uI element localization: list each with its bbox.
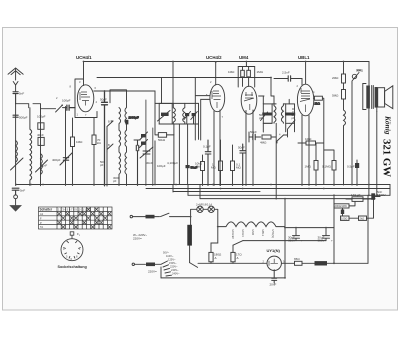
- switch contact B2: [107, 144, 113, 152]
- wire leads: [315, 143, 317, 186]
- resistor 1M vert right: [314, 161, 318, 171]
- wire tube2 grid lead: [215, 62, 217, 85]
- wire left branch: [16, 104, 41, 108]
- svg-text:110V~: 110V~: [166, 254, 174, 258]
- svg-text:125V~: 125V~: [168, 258, 176, 262]
- switch dot 2: [61, 104, 63, 106]
- wire res vert leads: [221, 140, 233, 186]
- speaker driver: [378, 88, 385, 107]
- socket key: [70, 232, 74, 235]
- IF1 primary coil: [173, 103, 175, 124]
- wire 1M leads: [298, 142, 324, 144]
- wire right col b: [367, 195, 369, 263]
- wire res 1M leads: [72, 118, 74, 186]
- resistor NTC blob: [315, 261, 328, 265]
- wire heater feed drop: [275, 123, 277, 198]
- svg-text:500pF: 500pF: [19, 116, 28, 120]
- bottom rail: [161, 277, 285, 279]
- capacitor 2,5nF: [284, 76, 303, 81]
- svg-text:50pF: 50pF: [100, 98, 107, 102]
- svg-text:65Ω: 65Ω: [294, 257, 300, 261]
- svg-text:2×NF0,8/0,1A: 2×NF0,8/0,1A: [196, 203, 212, 207]
- svg-text:1MΩ: 1MΩ: [76, 140, 83, 144]
- tube UBL1 electrodes: [300, 88, 310, 112]
- wire 2M leads: [343, 62, 345, 90]
- resistor 100ohm: [341, 216, 350, 220]
- output transformer secondary winding: [375, 87, 378, 108]
- svg-text:UCH4/2: UCH4/2: [206, 55, 222, 60]
- rail HT3: [200, 198, 375, 200]
- svg-text:220V~: 220V~: [170, 265, 178, 269]
- UY1 electrodes: [269, 259, 278, 266]
- resistor 2k: [359, 216, 367, 220]
- output transformer core: [372, 86, 374, 109]
- IF2 cap blob: [262, 113, 272, 116]
- wire speaker lead: [376, 108, 378, 112]
- wire UBL1 grid: [301, 79, 303, 86]
- resistor 1M UM4 b: [247, 70, 251, 77]
- main bus 1: [16, 184, 390, 186]
- wire dropper leads: [190, 225, 191, 263]
- svg-text:1MΩ: 1MΩ: [305, 165, 312, 169]
- IF transformer 1 box: [159, 103, 172, 124]
- svg-text:50pF: 50pF: [250, 130, 257, 134]
- switch tone: [352, 70, 361, 83]
- svg-text:TA: TA: [40, 225, 43, 229]
- antenna: [8, 68, 23, 85]
- svg-text:100pF: 100pF: [37, 115, 46, 119]
- IF1 secondary coil: [183, 103, 185, 124]
- capacitor 0,5uF blob: [356, 160, 358, 186]
- resistor 0,1M vert right: [332, 161, 336, 171]
- svg-text:30nF: 30nF: [146, 161, 153, 165]
- wire NTC right: [327, 262, 368, 264]
- gang arrow a: [140, 132, 148, 140]
- IF1 cap blob: [161, 113, 169, 116]
- svg-text:40pF: 40pF: [37, 133, 44, 137]
- switch heater: [233, 241, 243, 246]
- capacitor trimmer mid: [140, 147, 153, 158]
- svg-text:240V~: 240V~: [172, 272, 180, 276]
- resistor 50k: [158, 133, 166, 138]
- mains wire bottom: [135, 263, 146, 265]
- wire band1 top: [63, 107, 67, 109]
- wire selector drop: [160, 267, 162, 278]
- shield box UM4 resistors: [238, 67, 255, 88]
- capacitor 30uF b: [323, 228, 330, 241]
- voltage selector fan: [155, 261, 172, 276]
- capacitor 0,1uF det: [205, 140, 211, 186]
- resistor 65ohm: [295, 261, 303, 265]
- capacitor 50pF tube1: [102, 91, 108, 186]
- svg-text:4MΩ: 4MΩ: [260, 141, 267, 145]
- svg-text:20nF: 20nF: [270, 282, 277, 286]
- svg-text:UY1(N): UY1(N): [267, 248, 281, 253]
- tube UCH4/2 electrodes: [212, 91, 221, 108]
- ground symbol: [9, 205, 22, 212]
- svg-text:UCH4: UCH4: [241, 230, 245, 238]
- svg-text:UM4: UM4: [251, 230, 255, 236]
- IF1 trimmer blob b: [192, 113, 196, 116]
- title Koenig 321 GW rotated: [381, 115, 393, 177]
- capacitor blob small: [341, 210, 344, 215]
- svg-text:UM4: UM4: [239, 55, 249, 60]
- wire plate tube1: [94, 91, 155, 103]
- wire UY1 right: [282, 262, 295, 264]
- tube UBL1 envelope: [297, 84, 313, 116]
- wire transformer top lead: [368, 62, 370, 196]
- gang capacitor frame lines: [146, 100, 153, 186]
- tube UCH4/1 envelope: [77, 85, 93, 112]
- capacitor 140uF box: [352, 197, 363, 202]
- resistor 10k 2W: [201, 162, 205, 171]
- wire lamps: [191, 209, 218, 226]
- wire cap return: [243, 240, 326, 242]
- switch contact B1: [107, 121, 113, 129]
- resistor 5M: [342, 90, 346, 100]
- lamp circle 2: [208, 206, 214, 212]
- table X marks: [57, 208, 111, 229]
- wire 120 leads: [232, 245, 234, 263]
- svg-text:100Ω: 100Ω: [341, 217, 347, 221]
- wire rail left drops: [173, 185, 200, 199]
- heater chain coil: [218, 222, 285, 227]
- svg-text:UCH4/1: UCH4/1: [76, 55, 92, 60]
- tube UY1 circle: [267, 256, 281, 270]
- svg-text:2MΩ: 2MΩ: [332, 76, 339, 80]
- speaker cone: [385, 86, 393, 109]
- resistor 2k cathode: [314, 96, 322, 100]
- wire left column: [15, 104, 17, 186]
- wire top bus: [84, 61, 370, 63]
- wire AVC drop: [271, 78, 274, 104]
- ground connector circle: [14, 195, 18, 199]
- wire tone drop: [351, 83, 353, 185]
- svg-text:50V~: 50V~: [163, 251, 170, 255]
- capacitor 50nF IF blob: [186, 165, 190, 168]
- wire speaker col: [376, 112, 378, 196]
- wire bus drop right: [389, 185, 391, 196]
- dropper resistor bar: [187, 225, 192, 246]
- IF transformer 2b box: [286, 104, 295, 123]
- gang cap blob a: [141, 134, 146, 137]
- svg-text:50kΩ: 50kΩ: [158, 138, 166, 142]
- capacitor 30uF a: [293, 228, 300, 241]
- IF2 secondary coil: [281, 104, 283, 123]
- oscillator coil A upper: [119, 108, 121, 131]
- svg-text:220V=: 220V=: [133, 237, 142, 241]
- svg-text:5nF: 5nF: [19, 92, 24, 96]
- resistor 1M UM4 a: [241, 70, 245, 77]
- svg-text:321 GW: 321 GW: [381, 139, 393, 177]
- tube UM4 envelope: [241, 86, 257, 114]
- tube UCH4/2 envelope: [210, 84, 225, 111]
- coil L2: [30, 108, 32, 186]
- socket pins: [63, 241, 80, 258]
- wire 2,5nF left: [274, 78, 284, 80]
- wire UM4 bottom leads: [246, 110, 253, 186]
- wire tube2 left pin: [195, 78, 210, 141]
- svg-text:1MΩ: 1MΩ: [257, 70, 264, 74]
- svg-text:50nF: 50nF: [238, 146, 245, 150]
- tube UCH4/1 electrodes: [80, 92, 90, 106]
- IF2b wires: [283, 99, 294, 131]
- capacitor 5nF antenna: [13, 92, 18, 104]
- IF transformer 1 bottom wire: [159, 123, 198, 125]
- wire AVC bus: [97, 77, 271, 79]
- tube UM4 electrodes: [244, 92, 254, 110]
- tube2 bottom leads: [214, 110, 220, 186]
- trimmer cap box 2: [38, 137, 44, 145]
- output transformer frame: [363, 84, 366, 110]
- IF1 trimmer arrow: [158, 111, 171, 122]
- table rows: [39, 211, 113, 224]
- wire IF1 verticals: [155, 62, 199, 185]
- mains pin top: [130, 215, 132, 217]
- svg-text:König: König: [384, 115, 393, 135]
- svg-text:2,5nF: 2,5nF: [282, 71, 290, 75]
- IF2 trimmer arrow: [261, 112, 268, 121]
- wire UM4 res leads: [243, 62, 249, 87]
- trimmer arrow L4: [36, 160, 48, 172]
- wire heater right: [284, 199, 286, 278]
- capacitor 5nF bottom left: [12, 188, 19, 195]
- svg-text:30μF350V: 30μF350V: [288, 236, 295, 243]
- wire 10k leads: [202, 155, 204, 186]
- resistor 1M vert a: [219, 161, 223, 171]
- switch mains top: [155, 213, 191, 216]
- svg-text:B: B: [108, 143, 110, 147]
- svg-text:0,1MΩ: 0,1MΩ: [322, 165, 332, 169]
- wire vol net: [249, 129, 288, 142]
- oscillator coil A: [119, 130, 121, 186]
- wire 50k leads: [155, 134, 174, 136]
- svg-text:2kΩ: 2kΩ: [360, 217, 365, 221]
- gang arrow b: [140, 140, 148, 148]
- svg-text:Schalter: Schalter: [40, 208, 53, 212]
- svg-text:400pF: 400pF: [52, 158, 61, 162]
- svg-text:50pF: 50pF: [259, 113, 263, 120]
- table columns: [57, 207, 107, 229]
- gang cap blob b: [141, 142, 146, 145]
- svg-text:220V=: 220V=: [148, 270, 157, 274]
- IF2 top bottom wires: [259, 96, 277, 132]
- svg-text:5nF: 5nF: [20, 189, 25, 193]
- capacitor 2000pF blob: [125, 120, 128, 125]
- svg-text:50kΩ: 50kΩ: [356, 69, 364, 73]
- wire UBL1 bottom leads: [302, 115, 309, 186]
- capacitor 100pF: [67, 105, 75, 110]
- IF1 trimmer arrow b: [191, 112, 198, 120]
- svg-text:+: +: [301, 239, 303, 243]
- choke blob bottom: [146, 263, 155, 267]
- svg-text:UBL1: UBL1: [261, 230, 265, 237]
- svg-text:100pF: 100pF: [62, 99, 71, 103]
- IF2b cap blob: [285, 113, 295, 116]
- resistor 200ohm box: [334, 204, 349, 208]
- wire antenna lead: [15, 85, 17, 92]
- wire 30uF rail: [285, 227, 334, 229]
- IF transformer 2 box: [263, 104, 272, 123]
- resistor 180ohm: [209, 252, 213, 261]
- wire right col a: [333, 195, 335, 263]
- svg-text:1MΩ: 1MΩ: [305, 137, 312, 141]
- wire UBL1 cathode right: [313, 98, 323, 184]
- svg-text:Sockelschaltung: Sockelschaltung: [58, 265, 87, 269]
- wire 4M leads: [271, 136, 276, 138]
- svg-text:2000pF: 2000pF: [129, 116, 139, 120]
- resistor 1M horiz right: [306, 141, 316, 145]
- svg-text:5MΩ: 5MΩ: [332, 94, 339, 98]
- coil choke UBL1: [344, 99, 346, 185]
- wire osc grid: [111, 121, 140, 140]
- lamp circle 1: [197, 206, 203, 212]
- mains pin bottom: [132, 263, 134, 265]
- trimmer arrow L1: [11, 158, 24, 170]
- wire switch col: [106, 129, 108, 186]
- svg-text:50pF: 50pF: [292, 113, 296, 120]
- capacitor 400pF: [60, 153, 72, 165]
- svg-text:+: +: [331, 239, 333, 243]
- wire UBL1 top lead: [305, 62, 307, 85]
- capacitor 5nF 1500V blob: [371, 193, 375, 200]
- wire res 70k leads: [93, 118, 95, 186]
- svg-text:B: B: [108, 120, 110, 124]
- resistor 1M grid: [71, 137, 75, 147]
- resistor 4M: [262, 135, 271, 139]
- wire grid top lead: [83, 62, 85, 86]
- svg-text:0,5μF: 0,5μF: [347, 165, 355, 169]
- rail HT1: [173, 191, 260, 193]
- choke blob top: [146, 215, 155, 219]
- svg-text:200Ω/10W: 200Ω/10W: [335, 204, 348, 208]
- svg-text:30μF350V: 30μF350V: [318, 236, 325, 243]
- capacitor 500pF: [13, 115, 18, 117]
- wire UY1 left: [198, 262, 267, 264]
- wire mid left: [40, 108, 42, 186]
- svg-text:1 2 3 4 5 6 7 8 9 10 11 12 13: 1 2 3 4 5 6 7 8 9 10 11 12 13: [58, 208, 92, 212]
- switch contact 2: [41, 105, 63, 112]
- coil L4: [41, 154, 43, 175]
- wire leads: [324, 150, 334, 186]
- switch table frame: [39, 207, 113, 229]
- svg-text:240V~: 240V~: [171, 268, 179, 272]
- svg-text:0,1μF: 0,1μF: [203, 145, 211, 149]
- svg-text:1nF: 1nF: [42, 164, 47, 168]
- tube socket circle: [61, 239, 83, 261]
- capacitor 50nF: [240, 144, 246, 186]
- wire dropper switch: [190, 263, 198, 268]
- main bus 2: [146, 188, 390, 190]
- capacitor 3000pF osc: [136, 140, 138, 186]
- resistor 70k: [92, 135, 96, 145]
- svg-text:P: P: [40, 221, 42, 225]
- resistor 2M: [342, 74, 346, 83]
- IF2 primary coil: [274, 104, 276, 123]
- IF1 trimmer arrow a: [184, 112, 191, 120]
- wire heater left drop: [211, 227, 218, 264]
- resistor 0,1M vert b: [231, 161, 235, 171]
- svg-text:A1: A1: [40, 212, 44, 216]
- resistor 120ohm: [231, 252, 235, 261]
- svg-text:1MΩ: 1MΩ: [228, 70, 235, 74]
- svg-text:150V~: 150V~: [169, 261, 177, 265]
- svg-text:UCH4/2: UCH4/2: [231, 230, 235, 240]
- oscillator coil B: [125, 130, 127, 186]
- wire ground lead: [15, 199, 17, 205]
- capacitor 50pF vol: [249, 134, 261, 139]
- IF2b trimmer arrow: [288, 120, 295, 129]
- wire 65 lead: [302, 262, 315, 264]
- rail HT2: [188, 194, 390, 196]
- tube box UCH4/1 shield: [75, 79, 97, 118]
- IF1 trimmer blob a: [185, 113, 189, 116]
- trimmer cap box: [38, 123, 44, 130]
- wire band1 drop: [65, 107, 67, 186]
- oscillator coil B upper: [110, 90, 127, 130]
- svg-text:100μF: 100μF: [157, 164, 166, 168]
- coil L1 antenna: [16, 141, 18, 163]
- output transformer primary winding: [366, 86, 370, 109]
- svg-text:UY1(N): UY1(N): [271, 230, 275, 239]
- svg-text:140 μF: 140 μF: [351, 193, 361, 197]
- mains wire top: [133, 216, 146, 218]
- svg-text:4,100μF: 4,100μF: [167, 161, 178, 165]
- wire 140uF leads: [346, 198, 373, 200]
- svg-text:UBL1: UBL1: [298, 55, 310, 60]
- svg-text:2kΩ: 2kΩ: [315, 102, 321, 106]
- switch contact 4: [277, 135, 284, 143]
- IF transformer 1 top wire: [155, 102, 199, 104]
- wire right net: [334, 199, 374, 218]
- capacitor 20nF: [272, 270, 277, 283]
- wire blob lead: [375, 196, 380, 198]
